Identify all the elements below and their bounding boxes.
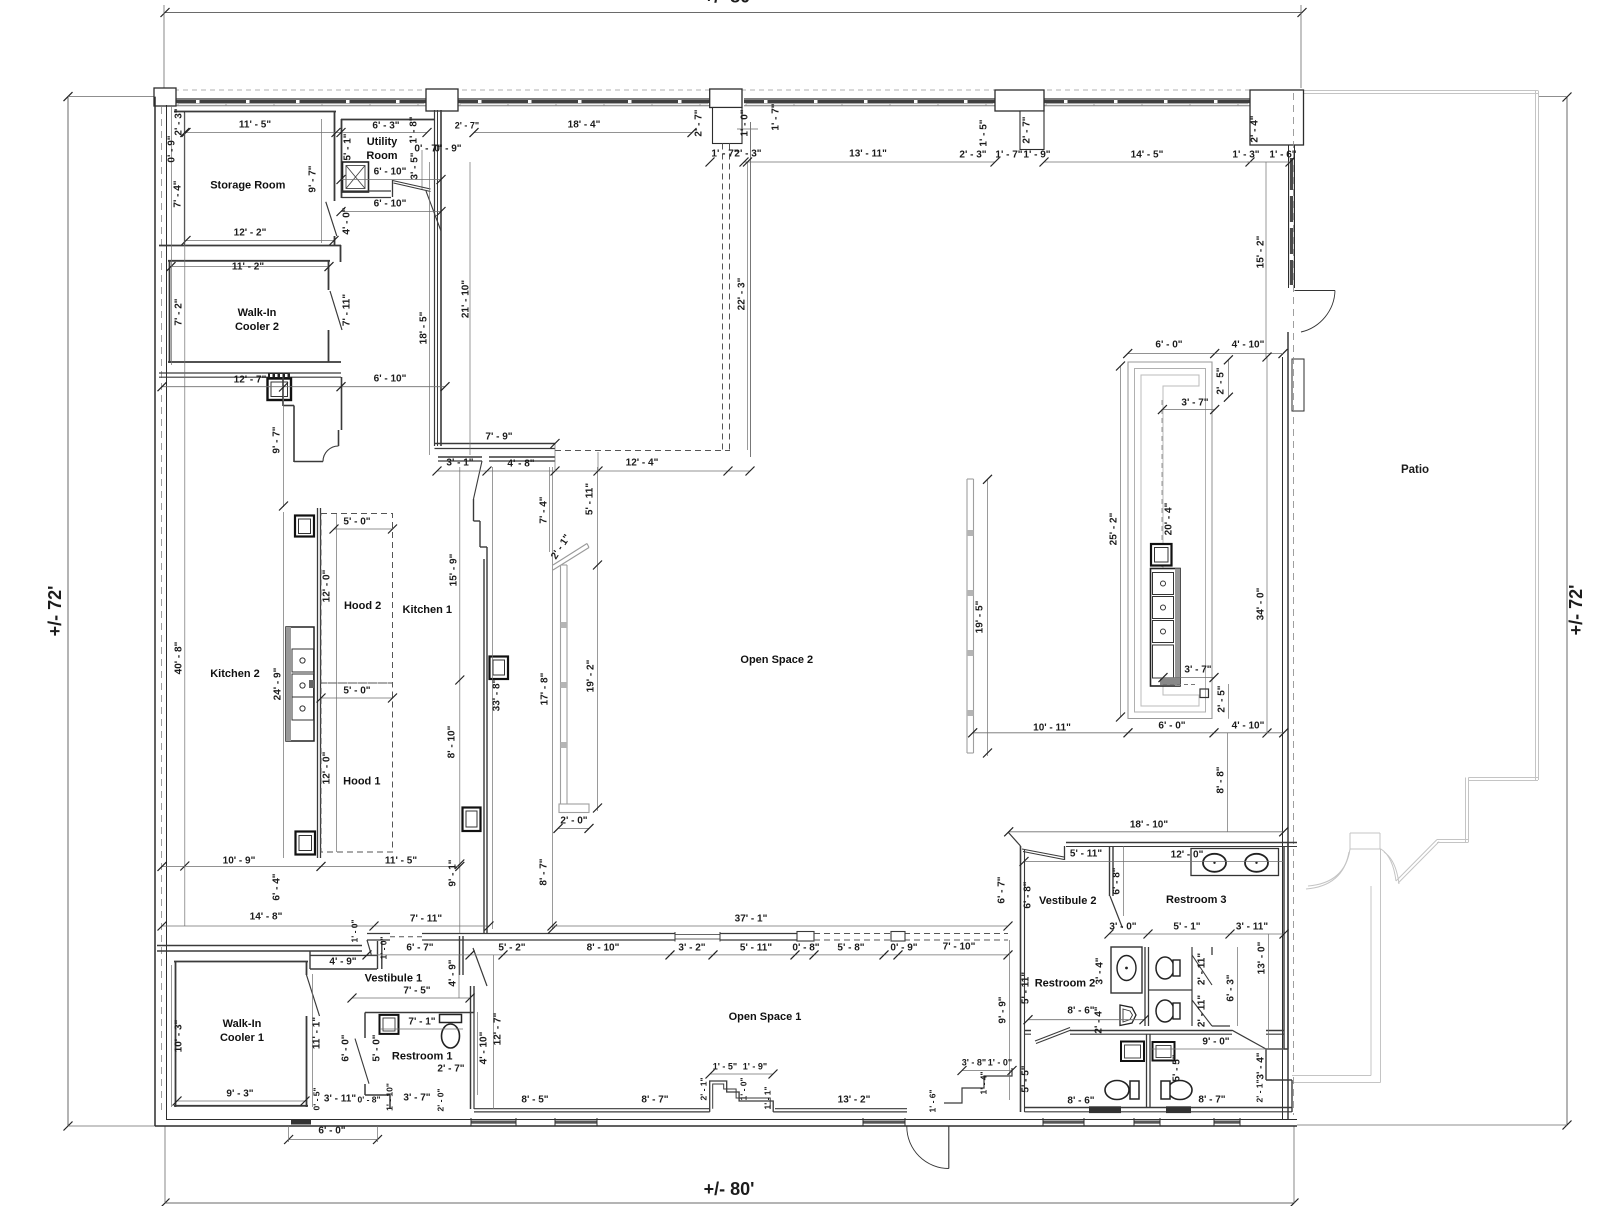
svg-text:2' - 5": 2' - 5"	[1216, 367, 1227, 394]
svg-text:1' - 7": 1' - 7"	[995, 150, 1022, 161]
svg-text:+/- 80': +/- 80'	[704, 1179, 755, 1199]
svg-text:1' - 9": 1' - 9"	[743, 1061, 767, 1071]
svg-text:11' - 1": 11' - 1"	[312, 1017, 323, 1049]
svg-text:9' - 0": 9' - 0"	[1202, 1037, 1229, 1048]
svg-text:7' - 11": 7' - 11"	[342, 294, 353, 326]
svg-text:5' - 1": 5' - 1"	[343, 133, 354, 160]
svg-text:1' - 6": 1' - 6"	[927, 1089, 937, 1112]
svg-text:1' - 9": 1' - 9"	[1023, 150, 1050, 161]
svg-text:7' - 4": 7' - 4"	[539, 496, 550, 523]
svg-text:2' - 7": 2' - 7"	[1022, 116, 1033, 143]
svg-text:3' - 5": 3' - 5"	[410, 152, 421, 179]
svg-text:8' - 7": 8' - 7"	[1198, 1095, 1225, 1106]
svg-text:+/- 72': +/- 72'	[1566, 585, 1586, 636]
svg-text:15' - 2": 15' - 2"	[1256, 235, 1267, 268]
svg-text:+/- 80': +/- 80'	[704, 0, 755, 6]
svg-text:Kitchen 2: Kitchen 2	[210, 668, 260, 680]
svg-text:1' - 0": 1' - 0"	[738, 1077, 748, 1100]
svg-text:4' - 10": 4' - 10"	[1232, 721, 1265, 732]
svg-text:9' - 3": 9' - 3"	[226, 1089, 253, 1100]
svg-text:Kitchen 1: Kitchen 1	[403, 604, 453, 616]
svg-text:8' - 6": 8' - 6"	[1067, 1006, 1094, 1017]
svg-text:6' - 0": 6' - 0"	[341, 1034, 352, 1061]
svg-text:5' - 11": 5' - 11"	[1070, 849, 1102, 860]
svg-text:6' - 3": 6' - 3"	[372, 121, 399, 132]
svg-text:5' - 11": 5' - 11"	[1021, 972, 1032, 1004]
svg-text:6' - 0": 6' - 0"	[318, 1126, 345, 1137]
svg-text:5' - 2": 5' - 2"	[498, 943, 525, 954]
svg-text:9' - 1": 9' - 1"	[448, 859, 459, 886]
svg-text:0' - 5": 0' - 5"	[311, 1087, 321, 1110]
svg-text:3' - 11": 3' - 11"	[1236, 922, 1268, 933]
svg-text:0' - 9": 0' - 9"	[890, 943, 917, 954]
svg-text:5' - 11": 5' - 11"	[585, 483, 596, 515]
svg-text:2' - 7": 2' - 7"	[437, 1064, 464, 1075]
svg-text:12' - 7": 12' - 7"	[493, 1012, 504, 1045]
svg-text:11' - 5": 11' - 5"	[385, 856, 417, 867]
svg-text:9' - 9": 9' - 9"	[998, 996, 1009, 1023]
svg-text:14' - 8": 14' - 8"	[250, 912, 283, 923]
svg-text:33' - 8": 33' - 8"	[492, 678, 503, 711]
svg-text:6' - 0": 6' - 0"	[1155, 340, 1182, 351]
svg-text:2' - 4": 2' - 4"	[1250, 115, 1261, 142]
svg-text:40' - 8": 40' - 8"	[174, 641, 185, 674]
svg-text:2' - 3": 2' - 3"	[959, 150, 986, 161]
svg-text:2' - 0": 2' - 0"	[560, 816, 587, 827]
svg-text:2' - 7": 2' - 7"	[694, 109, 705, 136]
svg-text:Walk-In: Walk-In	[223, 1018, 262, 1030]
svg-text:22' - 3": 22' - 3"	[737, 277, 748, 310]
svg-text:7' - 2": 7' - 2"	[174, 298, 185, 325]
svg-text:24' - 9": 24' - 9"	[273, 667, 284, 700]
svg-text:2' - 3": 2' - 3"	[734, 149, 761, 160]
svg-text:17' - 8": 17' - 8"	[540, 672, 551, 705]
svg-text:3' - 1": 3' - 1"	[446, 458, 473, 469]
svg-text:8' - 5": 8' - 5"	[521, 1095, 548, 1106]
svg-text:1' - 0": 1' - 0"	[740, 109, 751, 136]
svg-text:19' - 5": 19' - 5"	[975, 600, 986, 633]
svg-text:2' - 3": 2' - 3"	[174, 108, 185, 135]
svg-text:1' - 0": 1' - 0"	[378, 936, 388, 959]
svg-text:+/- 72': +/- 72'	[45, 586, 65, 637]
svg-text:5' - 0": 5' - 0"	[343, 517, 370, 528]
svg-text:1' - 6": 1' - 6"	[1269, 150, 1296, 161]
svg-text:15' - 9": 15' - 9"	[449, 553, 460, 586]
svg-text:Vestibule 1: Vestibule 1	[365, 973, 422, 985]
svg-text:2' - 4": 2' - 4"	[1094, 1006, 1105, 1033]
svg-text:6' - 8": 6' - 8"	[1023, 881, 1034, 908]
svg-text:3' - 4": 3' - 4"	[1256, 1052, 1267, 1079]
svg-text:5' - 5": 5' - 5"	[1172, 1054, 1183, 1081]
svg-text:6' - 3": 6' - 3"	[1226, 974, 1237, 1001]
svg-text:19' - 2": 19' - 2"	[586, 659, 597, 692]
svg-text:20' - 4": 20' - 4"	[1164, 502, 1175, 535]
svg-text:12' - 0": 12' - 0"	[322, 569, 333, 602]
svg-text:2' - 1": 2' - 1"	[1254, 1079, 1264, 1102]
svg-text:10' - 11": 10' - 11"	[1033, 723, 1071, 734]
svg-text:Cooler 1: Cooler 1	[220, 1032, 264, 1044]
svg-text:Restroom 1: Restroom 1	[392, 1050, 453, 1062]
svg-text:1' - 1": 1' - 1"	[762, 1086, 772, 1109]
svg-text:5' - 5": 5' - 5"	[1021, 1065, 1032, 1092]
svg-text:6' - 10": 6' - 10"	[374, 199, 407, 210]
svg-text:0' - 8": 0' - 8"	[357, 1094, 380, 1104]
svg-text:2' - 0": 2' - 0"	[435, 1088, 445, 1111]
svg-text:0' - 9": 0' - 9"	[434, 144, 461, 155]
svg-text:1' - 4": 1' - 4"	[978, 1071, 988, 1094]
svg-text:2' - 11": 2' - 11"	[1197, 995, 1208, 1027]
svg-text:5' - 11": 5' - 11"	[740, 943, 772, 954]
svg-text:2' - 7": 2' - 7"	[455, 120, 479, 130]
svg-text:6' - 7": 6' - 7"	[997, 876, 1008, 903]
svg-text:1' - 10": 1' - 10"	[384, 1083, 394, 1111]
svg-text:10' - 3": 10' - 3"	[174, 1019, 185, 1052]
svg-text:8' - 7": 8' - 7"	[641, 1095, 668, 1106]
svg-text:9' - 7": 9' - 7"	[272, 426, 283, 453]
svg-text:12' - 0": 12' - 0"	[322, 751, 333, 784]
svg-text:7' - 9": 7' - 9"	[485, 432, 512, 443]
svg-text:12' - 4": 12' - 4"	[626, 458, 659, 469]
svg-text:3' - 7": 3' - 7"	[403, 1093, 430, 1104]
svg-text:8' - 6": 8' - 6"	[1067, 1096, 1094, 1107]
svg-text:4' - 9": 4' - 9"	[448, 959, 459, 986]
svg-text:1' - 7": 1' - 7"	[771, 103, 782, 130]
svg-text:1' - 5": 1' - 5"	[713, 1061, 737, 1071]
svg-text:1' - 3": 1' - 3"	[1232, 150, 1259, 161]
svg-text:Room: Room	[366, 150, 397, 162]
svg-text:Storage Room: Storage Room	[210, 180, 285, 192]
svg-text:0' - 8": 0' - 8"	[792, 943, 819, 954]
svg-text:13' - 0": 13' - 0"	[1257, 941, 1268, 974]
svg-text:Vestibule 2: Vestibule 2	[1039, 895, 1096, 907]
svg-text:5' - 8": 5' - 8"	[837, 943, 864, 954]
svg-text:3' - 2": 3' - 2"	[678, 943, 705, 954]
svg-text:2' - 1": 2' - 1"	[698, 1077, 708, 1100]
svg-text:37' - 1": 37' - 1"	[735, 914, 768, 925]
svg-text:12' - 2": 12' - 2"	[234, 228, 267, 239]
svg-text:Walk-In: Walk-In	[238, 307, 277, 319]
svg-text:Utility: Utility	[367, 136, 398, 148]
svg-text:8' - 10": 8' - 10"	[447, 725, 458, 758]
svg-text:21' - 10": 21' - 10"	[461, 280, 472, 319]
svg-text:4' - 9": 4' - 9"	[329, 957, 356, 968]
svg-text:34' - 0": 34' - 0"	[1256, 587, 1267, 620]
svg-text:2' - 5": 2' - 5"	[1217, 685, 1228, 712]
svg-text:4' - 8": 4' - 8"	[507, 459, 534, 470]
svg-text:8' - 10": 8' - 10"	[587, 943, 620, 954]
svg-text:7' - 4": 7' - 4"	[173, 180, 184, 207]
svg-text:18' - 5": 18' - 5"	[419, 311, 430, 344]
svg-text:12' - 7": 12' - 7"	[234, 375, 267, 386]
svg-text:Hood 2: Hood 2	[344, 600, 381, 612]
svg-text:7' - 5": 7' - 5"	[403, 986, 430, 997]
svg-text:Restroom 2: Restroom 2	[1035, 977, 1096, 989]
svg-text:5' - 1": 5' - 1"	[1173, 922, 1200, 933]
svg-text:6' - 10": 6' - 10"	[374, 374, 407, 385]
svg-text:6' - 8": 6' - 8"	[1112, 867, 1123, 894]
svg-text:0' - 9": 0' - 9"	[167, 135, 178, 162]
svg-text:6' - 10": 6' - 10"	[374, 167, 407, 178]
svg-text:11' - 5": 11' - 5"	[239, 120, 271, 131]
svg-text:5' - 0": 5' - 0"	[372, 1034, 383, 1061]
svg-text:7' - 10": 7' - 10"	[943, 942, 976, 953]
svg-text:Patio: Patio	[1401, 464, 1429, 476]
svg-text:13' - 2": 13' - 2"	[838, 1095, 871, 1106]
svg-text:25' - 2": 25' - 2"	[1109, 512, 1120, 545]
svg-text:Open Space 1: Open Space 1	[729, 1011, 802, 1023]
svg-text:13' - 11": 13' - 11"	[849, 149, 887, 160]
svg-text:8' - 8": 8' - 8"	[1216, 766, 1227, 793]
svg-text:Open Space 2: Open Space 2	[740, 654, 813, 666]
svg-text:11' - 2": 11' - 2"	[232, 262, 264, 273]
svg-text:1' - 0": 1' - 0"	[988, 1057, 1012, 1067]
svg-text:12' - 0": 12' - 0"	[1171, 850, 1204, 861]
svg-text:3' - 0": 3' - 0"	[1109, 922, 1136, 933]
svg-text:1' - 0": 1' - 0"	[349, 919, 359, 942]
svg-text:6' - 7": 6' - 7"	[406, 943, 433, 954]
svg-text:18' - 4": 18' - 4"	[568, 120, 601, 131]
svg-text:Restroom 3: Restroom 3	[1166, 894, 1227, 906]
svg-text:3' - 4": 3' - 4"	[1095, 957, 1106, 984]
svg-text:2' - 11": 2' - 11"	[1197, 953, 1208, 985]
svg-text:3' - 7": 3' - 7"	[1181, 398, 1208, 409]
svg-text:4' - 10": 4' - 10"	[479, 1031, 490, 1064]
svg-text:Hood 1: Hood 1	[343, 776, 380, 788]
svg-text:1' - 5": 1' - 5"	[979, 119, 990, 146]
svg-text:9' - 7": 9' - 7"	[308, 165, 319, 192]
svg-text:Cooler 2: Cooler 2	[235, 321, 279, 333]
svg-text:6' - 4": 6' - 4"	[272, 873, 283, 900]
svg-text:10' - 9": 10' - 9"	[223, 856, 256, 867]
svg-text:1' - 8": 1' - 8"	[409, 116, 420, 143]
svg-text:8' - 7": 8' - 7"	[539, 858, 550, 885]
svg-text:3' - 11": 3' - 11"	[324, 1094, 356, 1105]
svg-text:4' - 10": 4' - 10"	[1232, 340, 1265, 351]
svg-text:3' - 7": 3' - 7"	[1184, 665, 1211, 676]
svg-text:7' - 11": 7' - 11"	[410, 914, 442, 925]
svg-text:4' - 0": 4' - 0"	[342, 207, 353, 234]
svg-text:6' - 0": 6' - 0"	[1158, 721, 1185, 732]
svg-text:7' - 1": 7' - 1"	[408, 1017, 435, 1028]
svg-text:3' - 8": 3' - 8"	[962, 1057, 986, 1067]
svg-text:5' - 0": 5' - 0"	[343, 686, 370, 697]
svg-text:18' - 10": 18' - 10"	[1130, 820, 1169, 831]
svg-text:14' - 5": 14' - 5"	[1131, 150, 1164, 161]
